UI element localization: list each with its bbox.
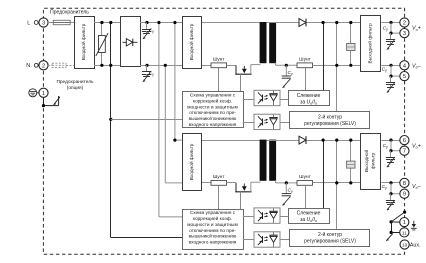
optional fuse F2 dashed [52,63,66,67]
terminal 8 Vo- ch2 [400,178,409,187]
output diode D2 [299,136,306,144]
open switch below 11 [386,234,393,241]
wire optional fuse to input filter dashed [66,65,74,67]
svg-text:10: 10 [402,243,408,248]
control box ch1 [183,92,244,128]
transformer T2 core left [260,140,267,181]
svg-text:(опция): (опция) [67,85,84,91]
Y-capacitor secondary ch1 [282,65,293,88]
wire output minus lower terminal ch1 [391,65,400,76]
junction 2nd loop bottom ch1 [335,64,338,67]
wire filter to shunt ch1 [202,65,211,67]
junction 2nd loop top ch1 [335,21,338,24]
svg-text:Предохранитель: Предохранитель [56,79,94,85]
svg-text:фильтр: фильтр [370,152,376,169]
svg-text:вышению/понижению: вышению/понижению [189,116,237,122]
optocoupler lower ch1 [254,114,280,129]
wire control to opto upper ch1 [243,99,254,101]
junction output plus ch1 [389,21,392,24]
input filter ch2 box [183,134,202,191]
Y-capacitor Cy top bus [142,23,154,40]
svg-text:Слежение: Слежение [297,211,321,217]
svg-text:Схема управления с: Схема управления с [190,93,236,99]
junction PE drop [42,104,45,107]
output Y-cap plus ch1 [386,33,395,50]
wire shunt secondary to filter ch1 [313,65,362,67]
shunt secondary ch1 [297,63,313,68]
svg-text:7: 7 [403,149,406,155]
wire output minus lower terminal ch2 [391,183,400,194]
wire rectifier to filter2 top [140,22,183,24]
wire opto upper to monitor ch2 [280,216,288,218]
rectifier box [121,17,141,67]
wire N dashed to optional fuse [48,65,52,67]
junction bulk cap bottom ch1 [349,64,352,67]
junction sense top rail [109,21,112,24]
svg-text:отключением по пре-: отключением по пре- [189,111,236,116]
wire shunt to switch ch1 [227,65,237,67]
junction voltage sense ch1 [322,21,325,24]
transformer T1 core left [260,22,267,63]
output Y-cap minus ch2 [386,194,395,211]
svg-text:3: 3 [403,31,406,37]
junction bulk cap bottom ch2 [349,181,352,184]
svg-text:коррекцией коэф.: коррекцией коэф. [193,97,232,104]
svg-text:за Uo/Io: за Uo/Io [300,99,317,105]
wire to 2nd loop ch2 [336,140,338,229]
functional earth symbol [411,221,417,230]
output filter ch2 box [361,134,381,190]
wire shunt secondary to filter ch2 [313,182,362,184]
svg-text:мощности и защитным: мощности и защитным [187,223,237,228]
terminal 5 Vo- ch1 [400,72,409,81]
svg-text:мощности и защитным: мощности и защитным [187,105,237,110]
svg-text:регулирования (SELV): регулирования (SELV) [304,238,356,244]
optocoupler upper ch2 [254,208,280,223]
fuse F1 [53,20,70,24]
wire output plus ch1 [381,22,399,24]
output filter ch1 box [361,16,381,72]
wire output minus ch1 [381,65,399,67]
junction output minus ch2 [389,181,392,184]
wire plus feed to ch2 control [159,23,182,217]
svg-text:коррекцией коэф.: коррекцией коэф. [193,215,232,222]
svg-text:9: 9 [403,192,406,198]
svg-text:1: 1 [403,220,406,226]
wire filter to transformer top ch1 [202,22,260,24]
chassis link switch [54,96,60,106]
wire minus feed to ch2 filter [165,65,183,183]
svg-text:входного напряжения: входного напряжения [189,240,237,245]
wire to terminal 1 [391,221,400,223]
wire MOSFET gate to control ch2 [240,192,242,209]
wire plus feed to ch2 filter [175,23,183,141]
junction output minus branch ch1 [389,75,392,78]
input filter ch1 box [183,17,202,69]
dashed device boundary [43,8,404,254]
wire filter1 to rectifier bottom [94,65,120,67]
svg-text:Слежение: Слежение [297,93,321,99]
wire opto lower to 2nd loop ch2 [280,239,290,241]
svg-text:Aux.: Aux. [410,243,421,249]
power MOSFET ch1 [235,65,251,74]
svg-text:2-й контур: 2-й контур [318,231,342,238]
optocoupler lower ch2 [254,232,280,247]
junction sense branch ch1 [109,118,112,121]
svg-text:L: L [27,20,30,26]
svg-text:Входной фильтр: Входной фильтр [80,23,87,60]
shunt primary ch1 [211,63,227,68]
sense wire shunt primary ch2 [218,185,220,209]
wire MOSFET to transformer primary ch2 [251,182,261,192]
wire link down [391,222,393,233]
wire MOSFET to transformer primary ch1 [251,65,261,75]
wire rectifier to filter2 bottom [140,65,183,67]
terminal 3 Vo+ ch1 [400,28,409,37]
terminal 10 Aux [400,240,409,249]
2nd loop box ch1 [290,112,370,129]
wire diode to output filter ch1 [307,22,361,24]
svg-text:входного напряжения: входного напряжения [189,123,237,128]
wire transformer secondary bottom ch2 [276,180,297,183]
wire output minus ch2 [381,182,399,184]
input N label [26,63,40,69]
power MOSFET ch2 [235,183,251,192]
wire output plus lower terminal ch1 [391,23,400,34]
terminal 4 Vo- ch1 [400,61,409,70]
varistor RV1 [96,33,108,56]
svg-text:Схема управления с: Схема управления с [190,210,236,216]
sense wire shunt secondary ch2 [305,185,307,208]
bulk capacitor wire ch1 [350,23,352,66]
svg-text:2-й контур: 2-й контур [318,113,342,120]
svg-text:2: 2 [403,21,406,27]
junction varistor top [100,21,103,24]
terminal 2 Vo+ ch1 [400,18,409,27]
shunt primary ch2 [211,181,227,186]
terminal 9 Vo- ch2 [400,189,409,198]
wire control to opto lower ch1 [243,122,254,124]
junction varistor bottom [100,64,103,67]
wire control to opto lower ch2 [243,239,254,241]
terminal 11 earth [400,228,409,237]
wire filter1 to rectifier top [94,22,120,24]
junction 2nd loop bottom ch2 [335,181,338,184]
wire opto lower to 2nd loop ch1 [280,122,290,124]
wire transformer secondary bottom ch1 [276,63,297,66]
svg-text:Шунт: Шунт [299,56,311,62]
input L label [27,20,40,26]
svg-text:Выходной: Выходной [363,150,370,173]
output Y-cap minus ch1 [386,76,395,93]
wire fuse to input filter [70,22,74,24]
junction output minus branch ch2 [389,192,392,195]
monitor box ch2 [289,209,330,224]
svg-text:Входной фильтр: Входной фильтр [188,143,195,180]
terminal 1 input PE [39,88,48,97]
svg-text:за Uo/Io: за Uo/Io [300,217,317,223]
wire opto upper to monitor ch1 [280,99,288,101]
PE drop wire [44,97,59,105]
junction secondary Y-cap ch2 [285,181,288,184]
optocoupler upper ch1 [254,90,280,105]
terminal 7 Vo+ ch2 [400,146,409,155]
monitor box ch1 [289,91,330,106]
output Y-cap plus ch2 [386,151,395,168]
junction minus feed [164,64,167,67]
terminal 1 earth [400,218,409,227]
transformer T2 core right [269,140,276,181]
svg-text:Шунт: Шунт [213,174,225,180]
svg-text:отключением по пре-: отключением по пре- [189,229,236,234]
PE earth symbol input [29,89,39,97]
wire L to fuse [48,22,53,24]
voltage sense wire ch1 [323,23,325,91]
control box ch2 [183,210,244,250]
svg-text:N: N [26,63,30,69]
wire output plus lower terminal ch2 [391,140,400,151]
svg-text:вышению/понижению: вышению/понижению [189,234,237,240]
terminal 3 input L [39,18,48,27]
junction output minus ch1 [389,64,392,67]
wire transformer to diode ch2 [267,140,300,142]
junction link lower [390,231,393,234]
sense wire shunt secondary ch1 [305,68,307,91]
junction voltage sense ch2 [322,139,325,142]
input sense vertical wire [110,23,112,238]
svg-text:3: 3 [42,21,45,27]
wire diode to output filter ch2 [307,140,361,142]
shunt secondary ch2 [297,181,313,186]
wire filter to transformer top ch2 [202,140,260,142]
junction sense bottom rail [109,64,112,67]
svg-text:6: 6 [403,138,406,144]
junction output plus branch ch1 [389,31,392,34]
svg-text:4: 4 [403,63,406,69]
junction plus feed [157,21,160,24]
varistor vertical wire [101,23,103,66]
2nd loop box ch2 [290,230,370,247]
bulk capacitor C2 [347,161,355,168]
terminal 6 Vo+ ch2 [400,136,409,145]
junction bulk cap top ch2 [349,139,352,142]
wire control to opto upper ch2 [243,216,254,218]
svg-text:5: 5 [403,74,406,80]
wire sense to control box ch1 [111,119,182,121]
svg-text:8: 8 [403,181,406,187]
wire to terminal 11 [391,232,400,234]
svg-text:2: 2 [42,63,45,69]
input filter 1 box [75,17,95,69]
earth link diagonal [391,212,405,222]
voltage sense wire ch2 [323,140,325,208]
svg-text:регулирования (SELV): регулирования (SELV) [304,121,356,127]
svg-text:Выходной фильтр: Выходной фильтр [366,23,373,63]
svg-text:Входной фильтр: Входной фильтр [188,23,195,60]
svg-text:Шунт: Шунт [299,174,311,180]
svg-text:Шунт: Шунт [213,56,225,62]
terminal 2 input N [39,61,48,70]
svg-text:1: 1 [42,91,45,97]
wire MOSFET gate to control ch1 [240,74,242,91]
junction earth link [390,220,393,223]
Y-capacitor Cy bottom bus [142,65,154,82]
junction earth tap [403,211,406,214]
junction output plus branch ch2 [389,149,392,152]
bulk capacitor wire ch2 [350,140,352,183]
rectifier diode symbol [123,39,138,46]
junction ch2 rail corner [173,139,176,142]
svg-text:Предохранитель: Предохранитель [50,10,89,16]
junction bulk cap top ch1 [349,21,352,24]
transformer T1 core right [269,22,276,63]
wire filter to shunt ch2 [202,182,211,184]
wire output plus ch2 [381,140,399,142]
output diode D1 [299,19,306,27]
wire to 2nd loop ch1 [336,23,338,112]
svg-text:11: 11 [402,230,407,235]
wire shunt to switch ch2 [227,182,237,184]
junction plus feed top [173,21,176,24]
sense wire shunt primary ch1 [218,68,220,92]
Y-capacitor secondary ch2 [282,183,293,206]
wire sense to control box ch2 [111,237,182,239]
junction secondary Y-cap ch1 [285,64,288,67]
junction 2nd loop top ch2 [335,139,338,142]
wire transformer to diode ch1 [267,22,300,24]
junction Y-cap top [145,21,148,24]
junction Y-cap bottom [145,64,148,67]
junction output plus ch2 [389,139,392,142]
bulk capacitor C1 [347,44,355,51]
